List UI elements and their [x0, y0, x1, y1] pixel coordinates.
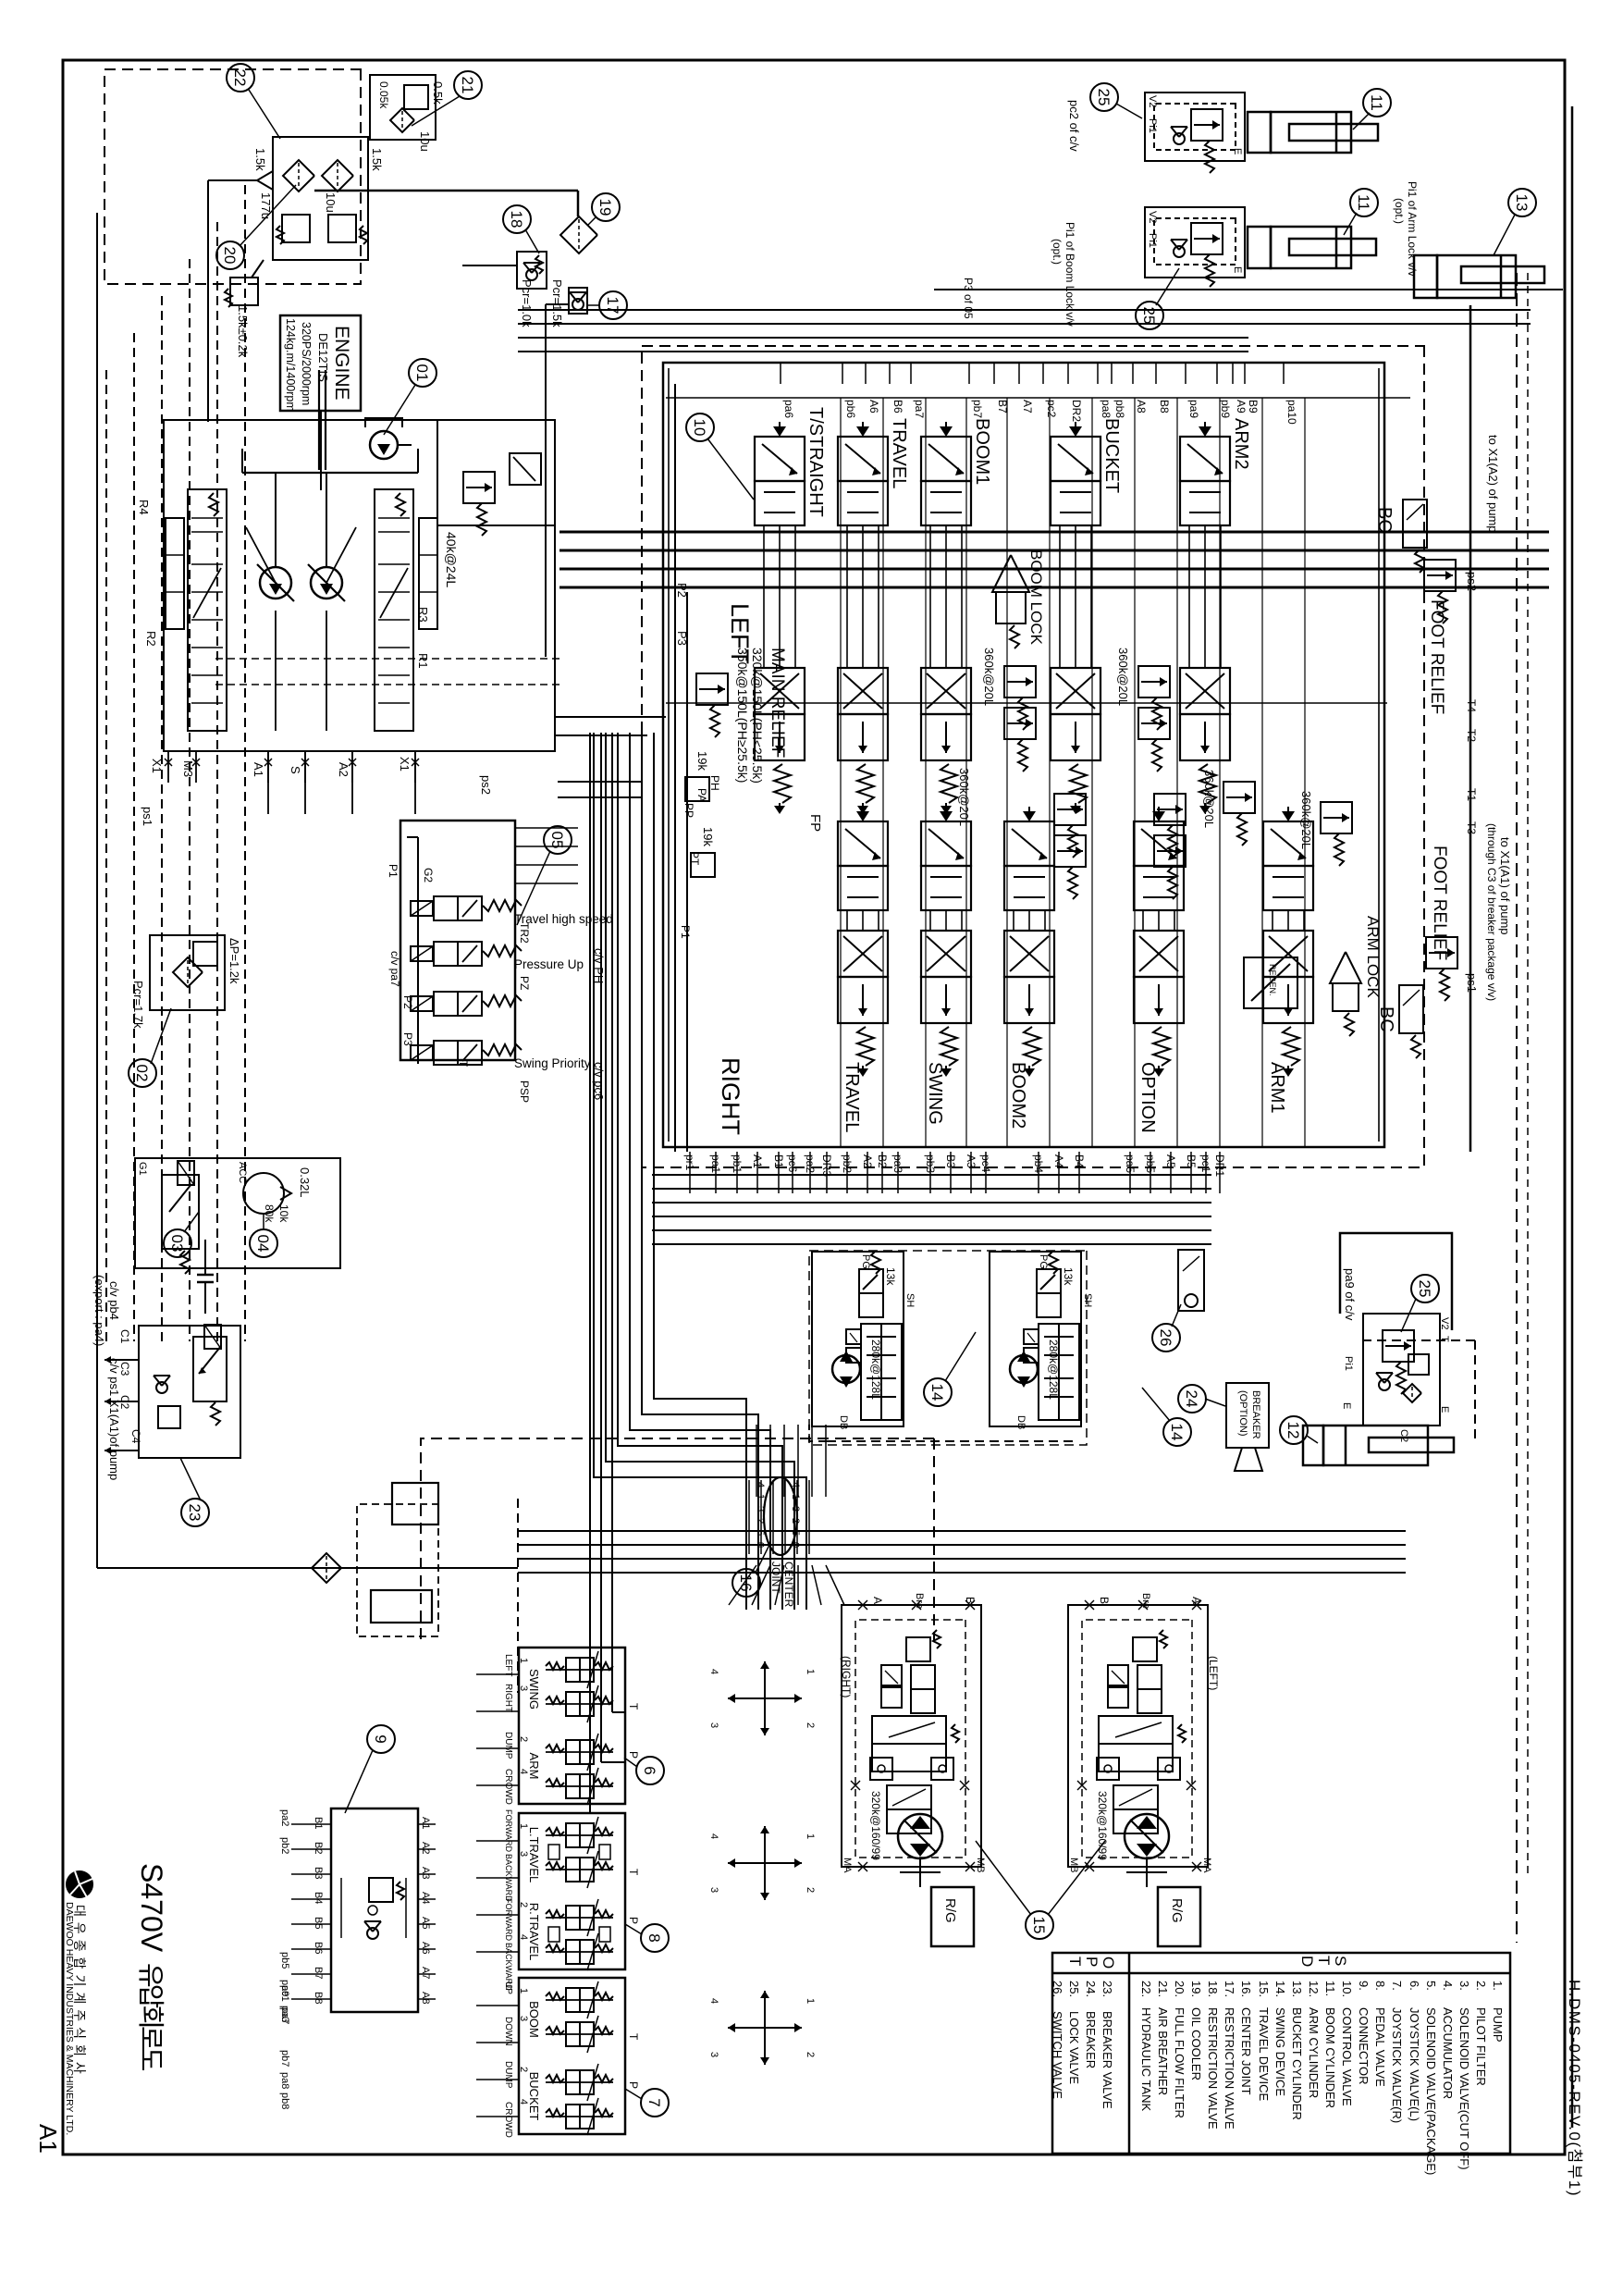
- svg-text:1.5k: 1.5k: [370, 148, 384, 171]
- svg-text:(RIGHT): (RIGHT): [840, 1656, 853, 1697]
- svg-text:20: 20: [221, 247, 239, 265]
- travel 2speed spool right: [887, 1785, 931, 1809]
- svg-text:pa8: pa8: [279, 2072, 290, 2089]
- svg-text:DB: DB: [838, 1415, 849, 1429]
- svg-text:13.: 13.: [1290, 1981, 1304, 1997]
- svg-text:6.: 6.: [1408, 1981, 1421, 1991]
- travel brake relief pair right: [906, 1637, 930, 1661]
- svg-text:pb8: pb8: [279, 2092, 290, 2109]
- svg-text:BOOM2: BOOM2: [1008, 1062, 1028, 1129]
- svg-text:A7: A7: [420, 1967, 431, 1979]
- switch valve 23 box: [139, 1326, 240, 1458]
- svg-text:CROWD: CROWD: [503, 2102, 513, 2138]
- svg-text:V2: V2: [1147, 211, 1158, 223]
- cylinder group connection line: [934, 289, 1563, 290]
- main relief valve symbol: [696, 673, 728, 705]
- svg-text:2: 2: [805, 1887, 816, 1893]
- svg-text:23: 23: [186, 1504, 203, 1522]
- callout balloon 22: [227, 64, 254, 92]
- svg-text:FP: FP: [807, 814, 823, 832]
- svg-text:B8: B8: [313, 1992, 324, 2004]
- svg-text:pb8: pb8: [1113, 400, 1126, 418]
- svg-text:pa9: pa9: [279, 1980, 290, 1996]
- svg-text:(opt.): (opt.): [1393, 198, 1406, 224]
- callout balloon 14: [1163, 1418, 1191, 1446]
- svg-text:CONTROL VALVE: CONTROL VALVE: [1340, 2007, 1354, 2106]
- svg-text:AIR BREATHER: AIR BREATHER: [1156, 2007, 1170, 2095]
- long dashed pilot line 1: [1516, 273, 1518, 1943]
- callout balloon 18: [503, 205, 531, 233]
- swing relief pair left: [1024, 1329, 1039, 1344]
- svg-text:TRAVEL: TRAVEL: [842, 1062, 862, 1132]
- pump P2 circle: [260, 567, 291, 599]
- callout balloon 25: [1411, 1275, 1439, 1302]
- svg-text:4: 4: [518, 2099, 529, 2105]
- svg-text:Pressure Up: Pressure Up: [514, 957, 584, 971]
- svg-text:14: 14: [928, 1384, 946, 1401]
- swing brake valve 13k right: [859, 1269, 883, 1293]
- pump outlet lines: [555, 716, 647, 718]
- pump internal dashed pilot lines: [213, 658, 559, 660]
- swing motor right: [832, 1355, 860, 1383]
- svg-text:13k: 13k: [1062, 1267, 1075, 1286]
- svg-text:c/v pa7: c/v pa7: [388, 951, 401, 987]
- svg-text:RIGHT: RIGHT: [717, 1057, 744, 1135]
- svg-text:RIGHT: RIGHT: [503, 1684, 513, 1712]
- joystick/pedal valve bank 6: [519, 1648, 625, 1804]
- port relief 360k@20L right bank pair 1: [1054, 794, 1086, 825]
- svg-text:T: T: [1439, 1336, 1450, 1342]
- svg-text:DUMP: DUMP: [503, 2061, 513, 2089]
- check valve 18 Pcr=1.0k: [517, 252, 547, 289]
- foot relief valve 1: [1424, 560, 1456, 591]
- callout balloon 6: [636, 1757, 664, 1784]
- svg-text:2: 2: [755, 1518, 766, 1524]
- svg-text:18.: 18.: [1206, 1981, 1220, 1997]
- legend table box: [1052, 1953, 1510, 2154]
- svg-text:MA: MA: [1201, 1858, 1212, 1873]
- svg-text:ARM LOCK: ARM LOCK: [1364, 916, 1382, 998]
- svg-text:A9: A9: [1235, 400, 1248, 414]
- svg-text:A6: A6: [867, 400, 880, 414]
- regulator left (pump P2 side): [188, 489, 227, 731]
- mid pilot bundle MCV to center joint fan: [654, 733, 746, 1610]
- MCV gallery lines: [840, 398, 842, 1147]
- svg-text:Travel high speed: Travel high speed: [514, 912, 613, 926]
- check valve network in block 9: [369, 1878, 393, 1902]
- svg-text:ARM: ARM: [527, 1753, 541, 1780]
- svg-text:320k@160/99: 320k@160/99: [869, 1791, 882, 1860]
- svg-text:T: T: [627, 1703, 640, 1710]
- main control valve 10 outer dashed boundary: [642, 346, 1424, 1167]
- valve spool ARM2: [1204, 422, 1206, 435]
- boom cylinder 13: [1437, 255, 1516, 298]
- svg-text:c/v pb4: c/v pb4: [107, 1281, 121, 1320]
- svg-text:Pi1: Pi1: [1147, 233, 1158, 248]
- center joint connections: [826, 1565, 844, 1605]
- svg-text:R2: R2: [144, 631, 158, 647]
- svg-text:OIL COOLER: OIL COOLER: [1189, 2007, 1203, 2080]
- svg-text:SH: SH: [1082, 1293, 1093, 1307]
- accumulator 04: [243, 1173, 284, 1214]
- travel device 15 left outline: [1068, 1605, 1208, 1867]
- svg-text:CROWD: CROWD: [503, 1769, 513, 1805]
- svg-text:PH: PH: [708, 775, 721, 791]
- callout balloon 24: [1178, 1385, 1206, 1413]
- 2-speed select valve 26: [1178, 1250, 1204, 1311]
- solenoid valve 3 c/v: [411, 996, 433, 1011]
- svg-text:Bre: Bre: [914, 1593, 925, 1609]
- svg-text:A5: A5: [420, 1917, 431, 1929]
- svg-text:LEFT: LEFT: [503, 1654, 513, 1676]
- svg-text:25: 25: [1416, 1280, 1433, 1298]
- svg-text:V2: V2: [1147, 95, 1158, 107]
- svg-text:Swing Priority: Swing Priority: [514, 1056, 591, 1070]
- swing device 14 left outline: [990, 1252, 1081, 1426]
- pump internal manifold lines: [267, 751, 269, 814]
- travel port X marks right: [965, 1600, 975, 1610]
- svg-text:26: 26: [1157, 1329, 1174, 1347]
- travel extra valve squares left: [1108, 1665, 1128, 1685]
- svg-text:360k@20L: 360k@20L: [982, 648, 996, 706]
- svg-text:B7: B7: [313, 1967, 324, 1979]
- svg-text:25.: 25.: [1067, 1981, 1081, 1997]
- svg-text:A2: A2: [420, 1842, 431, 1854]
- svg-text:pb9: pb9: [1219, 400, 1232, 418]
- travel extra valve squares right: [881, 1665, 902, 1685]
- svg-text:ps1: ps1: [141, 807, 154, 826]
- svg-text:360k@20L: 360k@20L: [1116, 648, 1130, 706]
- swing brake valve 13k left: [1037, 1269, 1061, 1293]
- callout balloon 10: [686, 414, 714, 441]
- svg-text:BUCKET CYLINDER: BUCKET CYLINDER: [1290, 2007, 1304, 2120]
- svg-text:B3: B3: [313, 1867, 324, 1879]
- callout balloon 01: [409, 359, 436, 387]
- svg-text:9.: 9.: [1357, 1981, 1371, 1991]
- svg-text:pa10: pa10: [1285, 400, 1298, 425]
- arm cylinder 11 first: [1271, 112, 1351, 153]
- swing feed lines: [652, 1174, 1211, 1176]
- svg-text:BOOM LOCK: BOOM LOCK: [1027, 549, 1045, 646]
- valve spool BOOM2 (right bank): [1028, 807, 1030, 820]
- valve spool BUCKET: [1075, 422, 1076, 435]
- svg-text:19.: 19.: [1189, 1981, 1203, 1997]
- svg-text:O: O: [1100, 1957, 1117, 1969]
- svg-text:11.: 11.: [1323, 1981, 1337, 1996]
- svg-text:2: 2: [805, 1722, 816, 1728]
- svg-text:SWITCH VALVE: SWITCH VALVE: [1051, 2011, 1064, 2099]
- svg-text:C4: C4: [129, 1429, 142, 1444]
- BC valve 1: [1403, 500, 1427, 548]
- left margin long solid run: [96, 213, 98, 1526]
- svg-text:SWING: SWING: [925, 1062, 945, 1125]
- relief 1.5k upper: [328, 215, 356, 242]
- travel port X marks left: [1192, 1600, 1201, 1610]
- foot relief valve 2: [1426, 937, 1457, 969]
- svg-text:23.: 23.: [1100, 1981, 1114, 1997]
- solenoid valve 4 Swing Priority: [411, 1045, 433, 1060]
- shuttle valve block 9: [331, 1808, 418, 2012]
- svg-text:13k: 13k: [884, 1267, 897, 1286]
- svg-text:DR2: DR2: [1070, 400, 1083, 422]
- svg-text:4: 4: [708, 1833, 719, 1839]
- svg-text:2: 2: [805, 2052, 816, 2057]
- svg-text:to X1(A2) of pump: to X1(A2) of pump: [1486, 435, 1500, 533]
- svg-text:14.: 14.: [1273, 1981, 1287, 1997]
- pressure switch 19k 1: [685, 777, 709, 801]
- svg-text:ACC: ACC: [237, 1162, 248, 1183]
- swing reduction gear left: [1039, 1324, 1079, 1420]
- oil cooler 19 diamond: [560, 216, 597, 253]
- center joint 16: [764, 1477, 797, 1555]
- arm lock valve: [1330, 952, 1361, 983]
- regulator left servo: [166, 518, 184, 629]
- tank box dashed: [105, 69, 361, 284]
- svg-text:350k@150L(PH≥25.5k): 350k@150L(PH≥25.5k): [735, 648, 750, 783]
- svg-text:RESTRICTION VALVE: RESTRICTION VALVE: [1206, 2007, 1220, 2129]
- solenoid valve in 40k box: [510, 453, 541, 485]
- svg-text:25: 25: [1095, 89, 1113, 106]
- routing outline to cylinder 12: [1340, 1233, 1452, 1330]
- callout balloon 15: [1026, 1911, 1053, 1939]
- callout balloon 7: [641, 2089, 669, 2117]
- svg-text:80k: 80k: [263, 1204, 276, 1223]
- svg-text:17.: 17.: [1223, 1981, 1236, 1997]
- coupling connector near box03: [197, 1274, 214, 1277]
- svg-text:OPTION: OPTION: [1137, 1062, 1158, 1133]
- relief 40k sub-box: [437, 420, 555, 525]
- svg-text:T/STRAIGHT: T/STRAIGHT: [805, 407, 826, 517]
- swing reduction gear right: [861, 1324, 902, 1420]
- svg-text:PA: PA: [695, 788, 708, 802]
- svg-text:BREAKER VALVE: BREAKER VALVE: [1100, 2011, 1114, 2109]
- svg-text:19k: 19k: [695, 751, 709, 771]
- svg-text:(opt.): (opt.): [1051, 239, 1064, 265]
- svg-text:21.: 21.: [1156, 1981, 1170, 1997]
- svg-text:ARM2: ARM2: [1231, 418, 1251, 470]
- svg-text:10: 10: [691, 419, 708, 437]
- svg-text:P: P: [627, 2081, 640, 2089]
- svg-text:BOOM1: BOOM1: [972, 418, 992, 485]
- svg-text:2: 2: [518, 2067, 529, 2072]
- filter 10u small: [390, 108, 414, 132]
- travel brake relief pair left: [1133, 1637, 1157, 1661]
- svg-text:pa8: pa8: [1100, 400, 1113, 418]
- callout balloon 23: [181, 1499, 209, 1526]
- svg-text:FOOT RELIEF: FOOT RELIEF: [1430, 846, 1449, 960]
- svg-text:R4: R4: [137, 500, 151, 515]
- svg-text:c/v ps1 X1(A1)of pump: c/v ps1 X1(A1)of pump: [107, 1358, 121, 1480]
- callout balloon 16: [732, 1569, 760, 1597]
- undercarriage dashed boundary segment: [517, 1499, 519, 1693]
- svg-text:16.: 16.: [1239, 1981, 1253, 1997]
- valve spool BOOM1: [945, 422, 947, 435]
- long dashed pilot line 2: [1527, 273, 1529, 1878]
- air breather 177u triangle: [257, 171, 273, 190]
- valve spool SWING (right bank): [945, 807, 947, 820]
- travel counterbalance valve left: [1099, 1716, 1173, 1744]
- valve spool OPTION (right bank): [1158, 807, 1160, 820]
- svg-text:pa7: pa7: [279, 2007, 290, 2024]
- svg-text:22: 22: [231, 69, 249, 87]
- svg-text:4.: 4.: [1441, 1981, 1455, 1991]
- solenoid package 05 box: [400, 821, 515, 1060]
- svg-text:17: 17: [604, 297, 621, 315]
- solenoid valve symbol: [162, 1175, 199, 1249]
- svg-text:15.: 15.: [1257, 1981, 1271, 1997]
- callout balloon 9: [367, 1725, 395, 1753]
- boom lock valve: [992, 555, 1029, 592]
- svg-text:G2: G2: [422, 868, 435, 883]
- svg-text:CENTER: CENTER: [782, 1562, 795, 1608]
- svg-text:pb7: pb7: [971, 400, 984, 418]
- joystick/pedal valve bank 8: [519, 1813, 625, 1969]
- extended top bundle lines: [1248, 309, 1531, 311]
- svg-text:A7: A7: [1021, 400, 1034, 414]
- svg-text:S470V: S470V: [135, 1863, 168, 1953]
- svg-text:0.05k: 0.05k: [377, 81, 390, 109]
- svg-text:FORWARD: FORWARD: [504, 1898, 513, 1941]
- svg-text:0.32L: 0.32L: [298, 1167, 312, 1198]
- svg-text:B5: B5: [313, 1917, 324, 1929]
- pump P1 circle: [311, 567, 342, 599]
- svg-text:R3: R3: [416, 607, 430, 623]
- svg-text:FORWARD: FORWARD: [504, 1809, 513, 1852]
- svg-text:0.5k: 0.5k: [431, 81, 445, 105]
- svg-text:pc2: pc2: [1045, 400, 1058, 418]
- svg-text:B: B: [1098, 1597, 1111, 1604]
- svg-text:pb5: pb5: [279, 1952, 290, 1969]
- svg-text:A2: A2: [337, 762, 350, 777]
- svg-text:3: 3: [518, 1851, 529, 1857]
- MCV internal T rails: [666, 397, 1410, 399]
- svg-text:Pcr=1.0k: Pcr=1.0k: [520, 279, 534, 327]
- svg-text:Bre: Bre: [1140, 1593, 1151, 1609]
- svg-text:P1: P1: [679, 925, 692, 939]
- callout balloon 17: [599, 291, 627, 319]
- boom lock valve block 25 lower: [1145, 207, 1245, 278]
- svg-text:ARM CYLINDER: ARM CYLINDER: [1307, 2007, 1321, 2098]
- travel device 15 right outline: [842, 1605, 981, 1867]
- svg-text:UP: UP: [503, 1981, 513, 1994]
- callout balloon 04: [250, 1229, 277, 1257]
- svg-text:1.5k: 1.5k: [253, 148, 267, 171]
- svg-text:JOINT: JOINT: [769, 1562, 782, 1594]
- lock valve internals: [1383, 1330, 1414, 1362]
- bypass relief 0.5k: [404, 85, 428, 109]
- svg-text:3: 3: [518, 1685, 529, 1691]
- cooler return line: [314, 190, 578, 192]
- svg-text:2: 2: [518, 1902, 529, 1907]
- svg-text:177u: 177u: [259, 192, 273, 219]
- regulator right (pump P1 side): [375, 489, 413, 731]
- relief valve 40k: [463, 472, 495, 503]
- svg-text:C1: C1: [118, 1329, 131, 1344]
- company logo: [66, 1870, 93, 1898]
- svg-text:DB: DB: [1015, 1415, 1027, 1429]
- swing device 14 right outline: [812, 1252, 904, 1426]
- regen valve: [1244, 957, 1297, 1008]
- svg-text:10.: 10.: [1340, 1981, 1354, 1997]
- svg-text:3: 3: [755, 1506, 766, 1512]
- svg-text:3: 3: [708, 1887, 719, 1893]
- svg-text:MB: MB: [1068, 1858, 1079, 1873]
- svg-text:T: T: [1066, 1957, 1084, 1966]
- svg-text:Pi1: Pi1: [1343, 1356, 1354, 1371]
- cylinder feed lines bundle: [559, 531, 1549, 534]
- svg-text:360k@20L: 360k@20L: [1299, 791, 1313, 849]
- svg-text:pb7: pb7: [279, 2050, 290, 2067]
- svg-text:02: 02: [133, 1065, 151, 1082]
- relief 1.5k lower: [282, 215, 310, 242]
- svg-text:FOOT RELIEF: FOOT RELIEF: [1427, 599, 1446, 714]
- port relief 360k@20L right bank pair 2: [1154, 794, 1186, 825]
- svg-text:11: 11: [1368, 94, 1385, 111]
- svg-text:JOYSTICK VALVE(R): JOYSTICK VALVE(R): [1390, 2007, 1404, 2123]
- svg-text:PP: PP: [682, 803, 695, 818]
- svg-text:A: A: [1190, 1597, 1203, 1604]
- port relief 360k@20L left bank pair 1: [1004, 666, 1036, 697]
- svg-text:MA: MA: [842, 1858, 853, 1873]
- swing motor left: [1010, 1355, 1038, 1383]
- svg-text:pa9: pa9: [1187, 400, 1200, 418]
- svg-text:H.DMS-0405-REV.0(첨부1): H.DMS-0405-REV.0(첨부1): [1566, 1980, 1583, 2197]
- svg-text:X1: X1: [398, 757, 412, 772]
- valve spool TRAVEL (right bank): [862, 807, 864, 820]
- restriction 17 Pcr=1.5k: [569, 288, 587, 314]
- svg-text:7: 7: [646, 2098, 663, 2106]
- regulator right servo: [419, 518, 437, 629]
- svg-text:15: 15: [1030, 1917, 1048, 1934]
- svg-text:RESTRICTION VALVE: RESTRICTION VALVE: [1223, 2007, 1236, 2129]
- pilot gear pump: [370, 431, 398, 459]
- svg-text:280k@128L: 280k@128L: [869, 1339, 882, 1400]
- port relief 360k@20L left bank single: [1223, 782, 1255, 813]
- svg-text:DAEWOO HEAVY INDUSTRIES & MACH: DAEWOO HEAVY INDUSTRIES & MACHINERY LTD.: [64, 1902, 75, 2135]
- svg-text:pa7: pa7: [913, 400, 926, 418]
- travel 2speed spool left: [1113, 1785, 1158, 1809]
- callout balloon 13: [1508, 189, 1536, 216]
- svg-text:4: 4: [518, 1769, 529, 1774]
- suction filter on pilot feed: [312, 1553, 341, 1583]
- svg-text:BUCKET: BUCKET: [527, 2072, 541, 2121]
- svg-text:V2: V2: [1439, 1317, 1450, 1329]
- svg-text:P3 of 05: P3 of 05: [962, 278, 975, 319]
- svg-text:320PS/2000rpm: 320PS/2000rpm: [300, 322, 313, 405]
- 3-2 solenoid valve: [193, 1337, 227, 1401]
- port relief 360k@20L right bank single: [1321, 802, 1352, 833]
- svg-text:PSP: PSP: [518, 1080, 531, 1103]
- pressure switch 1.5k+-0.2k: [230, 278, 258, 305]
- callout balloon 12: [1280, 1416, 1308, 1444]
- upper structure dashed boundary: [421, 1438, 934, 1642]
- svg-text:22.: 22.: [1139, 1981, 1153, 1997]
- svg-text:04: 04: [254, 1235, 272, 1253]
- svg-text:18: 18: [508, 211, 525, 228]
- svg-text:PG: PG: [1038, 1254, 1049, 1269]
- svg-text:6: 6: [641, 1766, 658, 1774]
- svg-text:P1: P1: [387, 864, 400, 878]
- svg-text:B2: B2: [313, 1842, 324, 1854]
- svg-text:R/G: R/G: [942, 1898, 958, 1923]
- pilot filter group 22 outline: [273, 137, 368, 260]
- filter F1 10u: [322, 160, 353, 191]
- svg-text:3: 3: [708, 2052, 719, 2057]
- svg-text:E: E: [1341, 1402, 1352, 1409]
- svg-text:360k@20L: 360k@20L: [957, 768, 971, 826]
- svg-text:R1: R1: [416, 653, 430, 669]
- svg-text:1.5k±0.2k: 1.5k±0.2k: [236, 305, 250, 358]
